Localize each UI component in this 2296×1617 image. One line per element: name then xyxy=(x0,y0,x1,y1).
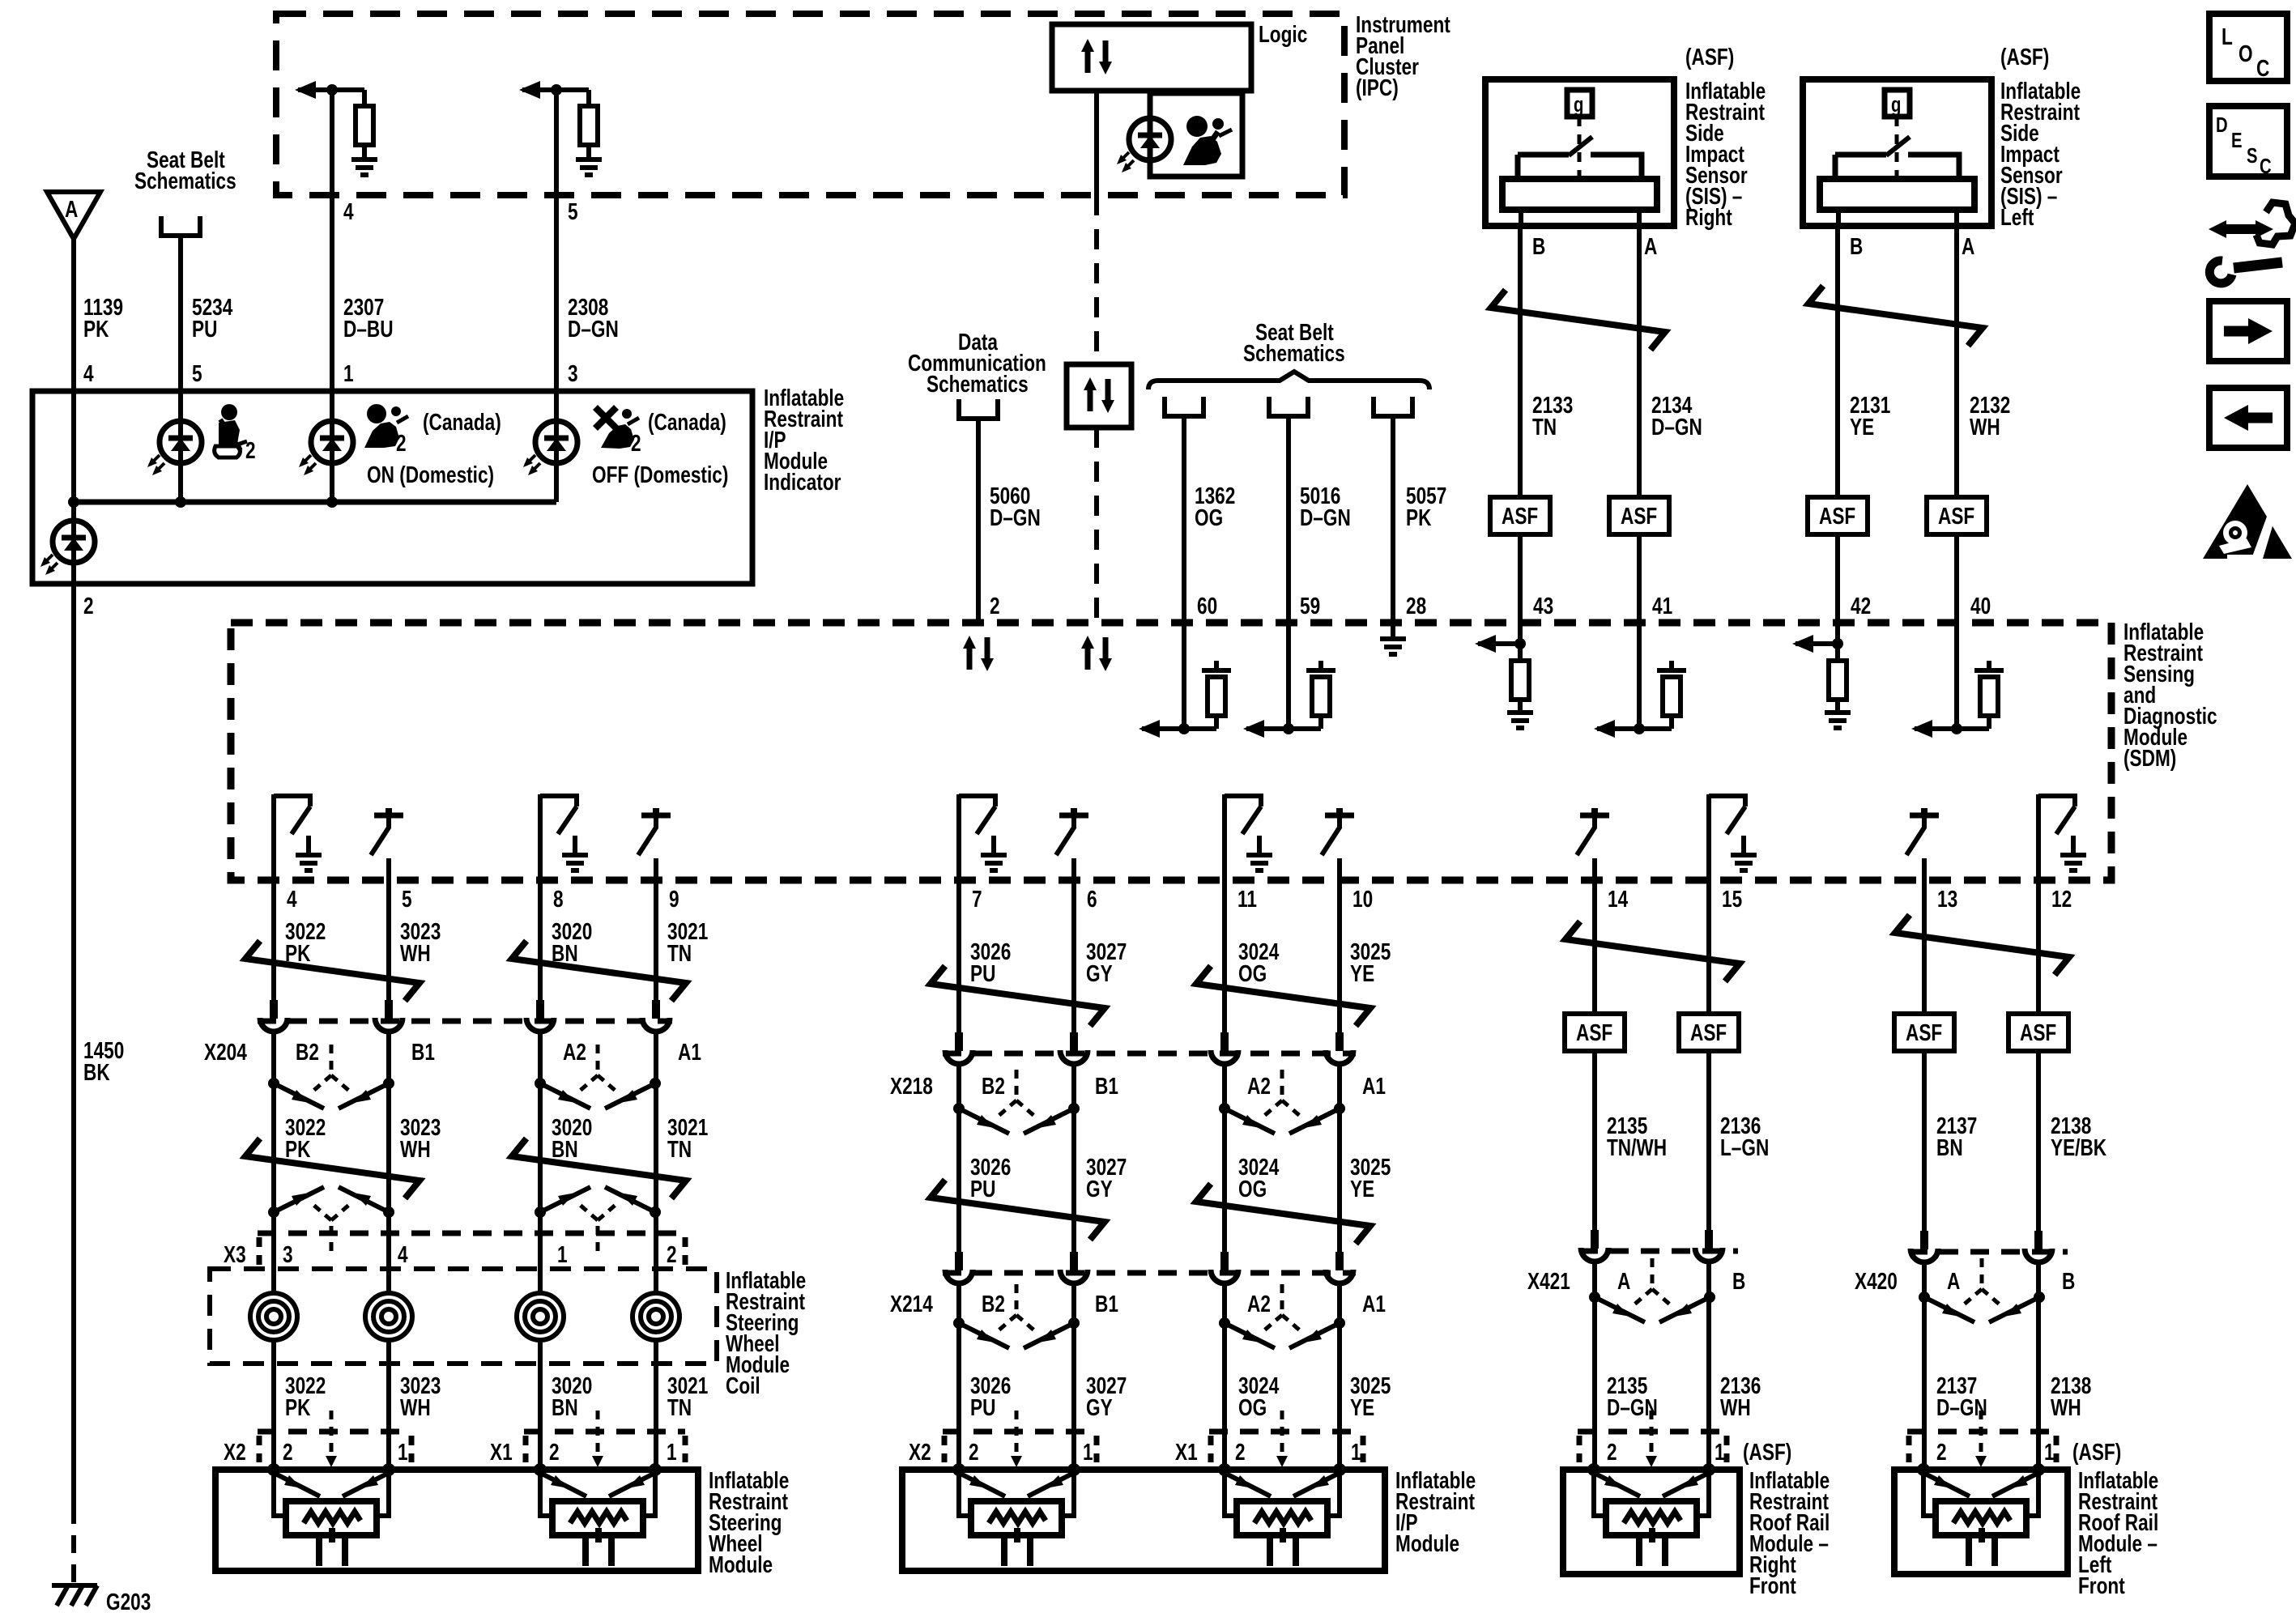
SIS left box xyxy=(1803,79,1991,226)
icon arrow left box xyxy=(2209,388,2287,448)
interrupt symbol pair 3020/3021 (2) xyxy=(512,1138,686,1198)
wire 2135 lower xyxy=(1592,1260,1597,1470)
wire 2136 mid xyxy=(1706,1051,1711,1234)
connector X421 dashed row xyxy=(1579,1249,1738,1254)
svg-text:B2: B2 xyxy=(982,1072,1005,1099)
wire 2135 upper xyxy=(1592,880,1597,1014)
svg-text:Schematics: Schematics xyxy=(134,167,236,194)
wire 3022 lower xyxy=(271,1340,276,1470)
wire 2137 mid xyxy=(1922,1051,1927,1235)
connector row roof rail right xyxy=(1578,1429,1727,1435)
svg-text:OFF (Domestic): OFF (Domestic) xyxy=(592,461,728,487)
shield drain dashed (roof left) xyxy=(1979,1411,1983,1457)
connector X214 cup B2 xyxy=(945,1252,973,1283)
twisted pair below X421 xyxy=(1589,1258,1715,1322)
svg-text:G203: G203 xyxy=(106,1588,151,1615)
connector X204 cup A2 xyxy=(526,1000,554,1032)
connector row roof rail left xyxy=(1907,1429,2056,1435)
twisted pair symbol above X3 (3020/3021) xyxy=(535,1187,661,1251)
interrupt symbol pair 3024/3025 xyxy=(1196,966,1370,1026)
svg-text:Front: Front xyxy=(1749,1572,1796,1598)
svg-text:PU: PU xyxy=(970,1175,995,1202)
inflatable restraint I/P module indicator box xyxy=(32,391,752,584)
svg-text:A1: A1 xyxy=(678,1038,701,1065)
svg-text:D–GN: D–GN xyxy=(568,315,619,342)
pin 40 internal: resistor with supply xyxy=(1980,677,1998,716)
connector A triangle xyxy=(47,192,100,239)
SDM pin 13 driver switch xyxy=(1906,808,1939,880)
serial data dashed wire below Logic xyxy=(1094,195,1099,364)
svg-text:1: 1 xyxy=(667,1438,677,1465)
pin 42 internal: arrow left xyxy=(1795,641,1838,646)
SDM pin 4 driver with ground xyxy=(274,794,322,880)
svg-text:Right: Right xyxy=(1685,203,1732,230)
wire 3023 WH upper xyxy=(386,880,391,1004)
svg-text:A: A xyxy=(1947,1267,1961,1294)
serial data arrows pin 2 xyxy=(963,636,994,671)
svg-text:PK: PK xyxy=(285,1394,311,1420)
svg-text:D–BU: D–BU xyxy=(343,315,394,342)
svg-text:X3: X3 xyxy=(224,1240,246,1267)
svg-text:A: A xyxy=(1962,232,1975,259)
svg-text:2: 2 xyxy=(667,1240,677,1267)
wire 1450 BK xyxy=(71,584,76,1506)
svg-text:2: 2 xyxy=(1936,1438,1947,1465)
svg-text:O: O xyxy=(2238,40,2253,66)
wire 2307 inside box xyxy=(330,391,334,502)
coil 3022 xyxy=(250,1293,297,1340)
wire 3025 lower xyxy=(1337,1282,1342,1470)
twisted pair below X218 (B2/B1) xyxy=(953,1070,1080,1134)
pin 59 internal: arrow left xyxy=(1246,726,1321,731)
svg-text:A: A xyxy=(65,195,79,222)
icon consult service (arrows and wrench) xyxy=(2209,202,2295,283)
svg-text:11: 11 xyxy=(1237,885,1257,912)
svg-text:WH: WH xyxy=(400,1394,431,1420)
svg-text:1: 1 xyxy=(1715,1438,1725,1465)
svg-text:PU: PU xyxy=(970,960,995,986)
svg-text:L–GN: L–GN xyxy=(1720,1134,1769,1160)
svg-text:PK: PK xyxy=(1406,504,1432,530)
seat belt icon xyxy=(215,404,247,457)
svg-text:4: 4 xyxy=(287,885,297,912)
svg-text:OG: OG xyxy=(1238,1175,1267,1202)
svg-text:13: 13 xyxy=(1937,885,1957,912)
pin 41 internal: arrow left xyxy=(1597,726,1672,731)
wire 3021 TN upper xyxy=(654,880,658,1004)
wire 3024 lower xyxy=(1222,1282,1227,1470)
junction dot wire 2308 xyxy=(551,84,562,96)
interrupt symbol SIS right xyxy=(1491,290,1665,350)
interrupt symbol pair 3026/3027 xyxy=(931,966,1105,1026)
connector X1 dashed row (I/P) xyxy=(1209,1429,1363,1435)
brace over seat belt group xyxy=(1148,372,1429,389)
svg-text:ON (Domestic): ON (Domestic) xyxy=(367,461,494,487)
connector X1 dashed row (steering) xyxy=(524,1429,685,1435)
wire 2307 vertical xyxy=(330,90,334,391)
wire 2136 upper xyxy=(1706,880,1711,1014)
connector X421 cup B xyxy=(1695,1230,1723,1262)
LED air bag OFF indicator xyxy=(523,421,577,475)
wire 2131 to SDM xyxy=(1835,534,1840,623)
wire 3023 lower xyxy=(386,1340,391,1470)
LED air bag ON indicator xyxy=(299,421,353,475)
svg-text:12: 12 xyxy=(2051,885,2072,912)
wire to IPC arrow 2 xyxy=(522,87,589,92)
svg-text:YE: YE xyxy=(1350,960,1374,986)
svg-text:1: 1 xyxy=(2044,1438,2055,1465)
svg-text:Coil: Coil xyxy=(726,1372,760,1398)
fuse ASF (2134) xyxy=(1609,497,1669,534)
wire 5060 D-GN xyxy=(976,419,981,623)
svg-text:TN/WH: TN/WH xyxy=(1607,1134,1667,1160)
interrupt symbol pair 2137/2138 xyxy=(1895,915,2069,975)
svg-text:OG: OG xyxy=(1195,504,1223,530)
wire 3020 BN upper xyxy=(538,880,543,1004)
svg-text:TN: TN xyxy=(1532,413,1557,440)
LED air bag indicator (IPC) xyxy=(1117,118,1171,172)
svg-text:(ASF): (ASF) xyxy=(2072,1438,2121,1465)
twisted pair symbol below X204 (B2/B1) xyxy=(268,1045,394,1108)
interrupt symbol pair 3022/3023 (2) xyxy=(245,1138,420,1198)
shield drain dashed (X1 I/P) xyxy=(1280,1411,1284,1457)
LED seat belt indicator xyxy=(147,421,202,475)
svg-text:PK: PK xyxy=(285,1135,311,1162)
roof rail module right box xyxy=(1563,1470,1740,1574)
svg-text:A2: A2 xyxy=(563,1038,586,1065)
svg-text:YE/BK: YE/BK xyxy=(2051,1134,2106,1160)
svg-text:60: 60 xyxy=(1197,592,1217,619)
pin 42 internal: resistor to ground xyxy=(1835,623,1840,661)
LED indicator on wire A xyxy=(40,521,95,575)
wire 5234 inside box xyxy=(178,391,183,502)
wire 3025 mid xyxy=(1337,1062,1342,1253)
svg-text:PU: PU xyxy=(192,315,217,342)
interrupt symbol pair 3022/3023 xyxy=(245,941,420,1001)
connector X218 cup B1 xyxy=(1060,1032,1088,1064)
coil 3020 xyxy=(517,1293,564,1340)
off-page U bracket 5016 xyxy=(1269,397,1308,416)
twisted pair below X218 (A2/A1) xyxy=(1219,1070,1345,1134)
svg-text:3: 3 xyxy=(283,1240,293,1267)
svg-text:WH: WH xyxy=(400,939,431,966)
svg-text:(ASF): (ASF) xyxy=(1685,43,1734,70)
fuse ASF (2132) xyxy=(1927,497,1987,534)
svg-text:OG: OG xyxy=(1238,1394,1267,1420)
svg-text:Left: Left xyxy=(2000,203,2034,230)
svg-text:2: 2 xyxy=(83,592,94,619)
connector X214 cup A1 xyxy=(1326,1252,1353,1283)
svg-text:59: 59 xyxy=(1300,592,1320,619)
resistor IPC 1 xyxy=(362,90,367,106)
svg-text:B: B xyxy=(1532,232,1545,259)
wire 1362 OG xyxy=(1182,416,1186,623)
wire 2137 lower xyxy=(1922,1261,1927,1470)
svg-text:A: A xyxy=(1644,232,1658,259)
svg-text:(SDM): (SDM) xyxy=(2123,744,2176,771)
svg-text:E: E xyxy=(2231,129,2243,152)
SIS right box xyxy=(1485,79,1674,226)
connector X204 cup B2 xyxy=(260,1000,288,1032)
svg-text:5: 5 xyxy=(402,885,412,912)
fuse ASF (2133) xyxy=(1490,497,1550,534)
twisted pair below X214 (A2/A1) xyxy=(1219,1284,1345,1348)
inflatable restraint steering wheel module box xyxy=(215,1470,698,1571)
twisted pair symbol above X3 (3022/3023) xyxy=(268,1187,394,1251)
icon LOC box xyxy=(2209,14,2287,82)
resistor IPC 2 xyxy=(586,90,591,106)
coil 3021 xyxy=(633,1293,679,1340)
fuse ASF (2136) xyxy=(1679,1014,1739,1051)
SDM pin 6 driver switch xyxy=(1056,808,1088,880)
coil 3023 xyxy=(365,1293,412,1340)
wire 2135 mid xyxy=(1592,1051,1597,1234)
indicator bus wire xyxy=(74,500,556,505)
pin 40 internal: arrow left xyxy=(1915,726,1989,731)
svg-text:15: 15 xyxy=(1722,885,1742,912)
svg-text:2: 2 xyxy=(1235,1438,1246,1465)
wire 2131 YE xyxy=(1835,226,1840,497)
wire 2133 TN xyxy=(1518,226,1523,497)
wire 2132 to SDM xyxy=(1954,534,1959,623)
connector X2 dashed row (I/P) xyxy=(943,1429,1097,1435)
wire 3023 mid xyxy=(386,1030,391,1293)
svg-text:D–GN: D–GN xyxy=(990,504,1041,530)
svg-text:BK: BK xyxy=(83,1058,110,1085)
connector X3 right tick xyxy=(683,1237,688,1266)
svg-text:WH: WH xyxy=(2051,1394,2081,1420)
connector X2 dashed row (steering) xyxy=(258,1429,411,1435)
pin 28 internal: ground xyxy=(1391,623,1395,639)
Logic box xyxy=(1052,24,1251,91)
connector X218 cup A1 xyxy=(1326,1032,1353,1064)
svg-text:X421: X421 xyxy=(1527,1267,1570,1294)
svg-text:43: 43 xyxy=(1533,592,1553,619)
svg-text:2: 2 xyxy=(283,1438,293,1465)
svg-text:X2: X2 xyxy=(224,1438,246,1465)
svg-text:40: 40 xyxy=(1970,592,1991,619)
svg-text:A2: A2 xyxy=(1247,1290,1271,1317)
svg-text:X420: X420 xyxy=(1855,1267,1898,1294)
svg-text:28: 28 xyxy=(1406,592,1426,619)
svg-text:B1: B1 xyxy=(1095,1072,1118,1099)
pin 60 internal: wire xyxy=(1182,623,1186,729)
svg-text:5: 5 xyxy=(192,360,202,386)
svg-text:4: 4 xyxy=(343,198,354,224)
icon arrow right box xyxy=(2209,301,2287,361)
junction dot bus A xyxy=(68,496,79,508)
icon air bag caution triangle xyxy=(2203,484,2292,559)
svg-text:B2: B2 xyxy=(296,1038,319,1065)
connector X218 cup B2 xyxy=(945,1032,973,1064)
squib I/P module (3026/3027) xyxy=(952,1463,1080,1566)
svg-text:(ASF): (ASF) xyxy=(1743,1438,1791,1465)
svg-text:D–GN: D–GN xyxy=(1651,413,1702,440)
wire 3027 mid xyxy=(1071,1062,1076,1253)
svg-text:1: 1 xyxy=(1351,1438,1361,1465)
wire 3025 YE upper xyxy=(1337,880,1342,1036)
wire 3020 mid xyxy=(538,1030,543,1293)
connector X204 cup B1 xyxy=(375,1000,403,1032)
SDM pin 15 driver with ground xyxy=(1709,794,1757,880)
arrowhead IPC 2 xyxy=(519,81,540,99)
steering wheel coil dashed box xyxy=(210,1269,717,1364)
svg-text:X1: X1 xyxy=(490,1438,513,1465)
svg-text:YE: YE xyxy=(1850,413,1874,440)
svg-text:A1: A1 xyxy=(1362,1290,1386,1317)
svg-text:D: D xyxy=(2216,113,2228,137)
wire 3021 mid xyxy=(654,1030,658,1293)
svg-text:PK: PK xyxy=(83,315,109,342)
svg-text:X2: X2 xyxy=(909,1438,931,1465)
svg-text:4: 4 xyxy=(398,1240,408,1267)
svg-text:(ASF): (ASF) xyxy=(2000,43,2049,70)
svg-text:L: L xyxy=(2221,23,2233,49)
wire 3027 GY upper xyxy=(1071,880,1076,1036)
connector X420 dashed row xyxy=(1909,1249,2068,1255)
pin 60 internal: arrow left xyxy=(1142,726,1216,731)
svg-text:B1: B1 xyxy=(411,1038,435,1065)
pin 43 internal: resistor to ground xyxy=(1518,623,1523,661)
svg-text:8: 8 xyxy=(553,885,564,912)
serial data box on dashed wire xyxy=(1067,364,1131,428)
IPC dashed box xyxy=(276,14,1344,195)
svg-text:B: B xyxy=(1732,1267,1745,1294)
twisted pair symbol below X204 (A2/A1) xyxy=(535,1045,661,1108)
wire 1139 PK xyxy=(71,239,76,391)
connector X214 cup B1 xyxy=(1060,1252,1088,1283)
shield drain dashed (X1 steering) xyxy=(596,1411,600,1457)
squib driver side air bag (steering 3022/3023) xyxy=(267,1463,395,1566)
squib roof rail left xyxy=(1917,1463,2045,1566)
pin 41 internal: resistor with supply xyxy=(1663,677,1680,716)
svg-text:7: 7 xyxy=(972,885,982,912)
SDM pin 5 driver switch xyxy=(371,808,403,880)
shield drain dashed (roof right) xyxy=(1650,1411,1654,1457)
svg-text:D–GN: D–GN xyxy=(1300,504,1351,530)
svg-text:Indicator: Indicator xyxy=(764,468,841,495)
svg-text:GY: GY xyxy=(1086,1394,1113,1420)
svg-text:WH: WH xyxy=(400,1135,431,1162)
pin 59 internal: wire xyxy=(1286,623,1291,729)
squib I/P module (3024/3025) xyxy=(1218,1463,1346,1566)
wire 2138 upper xyxy=(2036,880,2041,1014)
SDM pin 9 driver switch xyxy=(638,808,671,880)
connector X218 dashed row xyxy=(943,1051,1356,1057)
squib passenger side (steering 3020/3021) xyxy=(534,1463,662,1566)
air bag OFF icon xyxy=(593,405,639,449)
serial data arrows in Logic box xyxy=(1081,39,1112,74)
off-page connector U bracket (seat belt) xyxy=(161,216,200,236)
SDM dashed box xyxy=(231,623,2111,880)
SDM pin 12 driver with ground xyxy=(2038,794,2086,880)
svg-text:C: C xyxy=(2260,155,2272,178)
svg-text:YE: YE xyxy=(1350,1175,1374,1202)
wire 3027 lower xyxy=(1071,1282,1076,1470)
wire to IPC arrow 1 xyxy=(298,87,364,92)
wire Logic to sub-box xyxy=(1148,91,1152,118)
ground IPC 1 xyxy=(362,145,367,160)
svg-text:WH: WH xyxy=(1720,1394,1751,1420)
svg-text:YE: YE xyxy=(1350,1394,1374,1420)
wire 3026 mid xyxy=(956,1062,961,1253)
svg-text:2: 2 xyxy=(396,429,407,456)
connector X214 cup A2 xyxy=(1211,1252,1238,1283)
serial data arrows data line xyxy=(1081,636,1112,671)
svg-text:BN: BN xyxy=(1936,1134,1963,1160)
connector X218 cup A2 xyxy=(1211,1032,1238,1064)
svg-text:1: 1 xyxy=(557,1240,568,1267)
svg-text:1: 1 xyxy=(398,1438,408,1465)
wire 2308 vertical xyxy=(554,90,559,391)
svg-text:Module: Module xyxy=(1395,1530,1459,1556)
svg-text:6: 6 xyxy=(1087,885,1097,912)
icon DESC box xyxy=(2209,106,2287,178)
off-page connector U bracket (data) xyxy=(959,399,998,419)
connector X420 cup A xyxy=(1910,1231,1938,1262)
svg-text:Module: Module xyxy=(709,1551,773,1577)
svg-text:TN: TN xyxy=(667,1135,692,1162)
wire 3022 mid xyxy=(271,1030,276,1293)
wire 2134 D-GN xyxy=(1637,226,1642,497)
serial data dashed wire to SDM xyxy=(1094,428,1099,623)
svg-text:BN: BN xyxy=(552,1135,578,1162)
wire 3022 PK upper xyxy=(271,880,276,1004)
svg-text:C: C xyxy=(2256,54,2270,81)
wire 2308 inside box xyxy=(554,391,559,502)
svg-text:B: B xyxy=(1850,232,1863,259)
wire 3021 lower xyxy=(654,1340,658,1470)
connector X420 cup B xyxy=(2025,1231,2052,1262)
svg-text:Front: Front xyxy=(2078,1572,2125,1598)
svg-text:2: 2 xyxy=(990,592,1000,619)
wire 3024 mid xyxy=(1222,1062,1227,1253)
off-page U bracket 5057 xyxy=(1374,397,1412,416)
shield drain dashed (X2 steering) xyxy=(330,1411,334,1457)
svg-text:5: 5 xyxy=(568,198,578,224)
fuse ASF (2137) xyxy=(1894,1014,1954,1051)
interrupt symbol pair 2135/2136 xyxy=(1565,921,1740,981)
wire 2132 WH xyxy=(1954,226,1959,497)
junction dot bus 5234 xyxy=(175,496,186,508)
svg-text:2: 2 xyxy=(549,1438,560,1465)
air bag ON icon xyxy=(364,404,408,448)
connector X214 dashed row xyxy=(943,1270,1356,1276)
svg-text:4: 4 xyxy=(83,360,94,386)
wire 3020 lower xyxy=(538,1340,543,1470)
svg-text:GY: GY xyxy=(1086,960,1113,986)
wire 1450 dashed tail xyxy=(71,1506,76,1584)
squib roof rail right xyxy=(1587,1463,1715,1566)
pin 41 internal: wire xyxy=(1637,623,1642,729)
SDM pin 8 driver with ground xyxy=(540,794,588,880)
svg-text:1: 1 xyxy=(1083,1438,1093,1465)
fuse ASF (2138) xyxy=(2008,1014,2068,1051)
svg-text:WH: WH xyxy=(1970,413,2000,440)
pin 59 internal: resistor with supply xyxy=(1312,677,1330,716)
wire 5234 PU xyxy=(178,236,183,391)
svg-text:OG: OG xyxy=(1238,960,1267,986)
svg-text:Schematics: Schematics xyxy=(926,370,1029,397)
interrupt symbol pair 3026/3027 (2) xyxy=(931,1180,1105,1240)
svg-text:(IPC): (IPC) xyxy=(1356,74,1399,100)
svg-text:B2: B2 xyxy=(982,1290,1005,1317)
shield drain dashed (X2 I/P) xyxy=(1015,1411,1019,1457)
interrupt symbol pair 3020/3021 xyxy=(512,941,686,1001)
svg-text:41: 41 xyxy=(1652,592,1672,619)
svg-text:B: B xyxy=(2062,1267,2075,1294)
wire 2134 to SDM xyxy=(1637,534,1642,623)
